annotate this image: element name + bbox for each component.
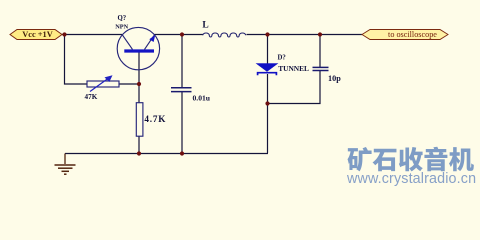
wire (268, 71, 321, 104)
junction base node (137, 82, 141, 86)
ground (55, 154, 76, 175)
svg-text:Vcc +1V: Vcc +1V (22, 30, 53, 39)
wire (267, 35, 269, 65)
svg-text:D?: D? (278, 54, 286, 61)
wire (247, 34, 363, 36)
wire (65, 153, 268, 155)
resistor 4.7K (136, 103, 166, 137)
capacitor 10p (313, 67, 342, 83)
capacitor 0.01u (171, 88, 211, 103)
svg-text:www.crystalradio.cn: www.crystalradio.cn (346, 171, 476, 187)
wire (138, 52, 140, 103)
wire (267, 74, 270, 153)
wire (181, 92, 183, 154)
port Vcc +1V (10, 30, 62, 40)
junction output rail / C2 top (318, 32, 322, 36)
svg-text:10p: 10p (328, 74, 341, 83)
svg-text:TUNNEL: TUNNEL (278, 64, 309, 73)
svg-text:0.01u: 0.01u (193, 94, 211, 103)
svg-text:4.7K: 4.7K (144, 114, 166, 124)
wire (138, 136, 140, 154)
svg-text:NPN: NPN (115, 23, 128, 30)
port to oscilloscope (362, 30, 448, 40)
wire (62, 34, 122, 36)
junction Vcc feed (62, 32, 66, 36)
wire (65, 35, 88, 85)
wire (181, 35, 183, 88)
svg-text:L: L (202, 20, 208, 30)
junction ground rail / R2 bottom (137, 151, 141, 155)
junction output rail / D1 top (265, 32, 269, 36)
transistor Q? (115, 15, 159, 70)
wire (119, 83, 139, 85)
tunnel diode D? (257, 54, 310, 75)
svg-text:to oscilloscope: to oscilloscope (388, 30, 437, 39)
junction ground rail / C1 bottom (180, 151, 184, 155)
potentiometer 47K (85, 75, 120, 101)
watermark CJK (348, 147, 474, 172)
junction diode cathode / C2 bottom (265, 101, 269, 105)
wire (319, 35, 321, 68)
wire (155, 34, 204, 36)
inductor L (202, 20, 245, 37)
svg-text:Q?: Q? (118, 15, 127, 22)
svg-text:47K: 47K (85, 93, 98, 101)
junction collector rail / C1 top (180, 32, 184, 36)
